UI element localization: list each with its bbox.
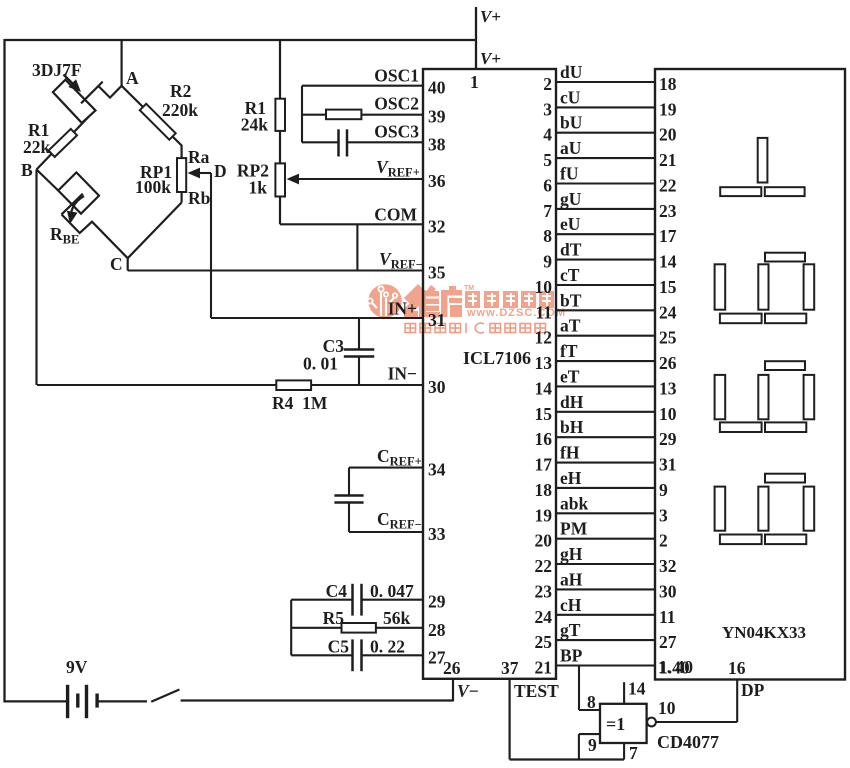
- svg-text:13: 13: [659, 378, 677, 398]
- svg-text:2: 2: [659, 531, 668, 551]
- capacitor C3 plate2: [344, 355, 375, 358]
- digit4 segment d-left: [720, 535, 762, 545]
- svg-text:cU: cU: [560, 87, 581, 107]
- wire IN+ from node D: [211, 317, 423, 319]
- wire top V+ rail: [5, 39, 477, 41]
- svg-text:5: 5: [543, 150, 552, 170]
- svg-text:11: 11: [659, 607, 676, 627]
- digit4 segment f-left: [715, 487, 726, 531]
- svg-text:0. 047: 0. 047: [370, 581, 414, 601]
- wire CREF+ down to cap: [348, 468, 350, 495]
- svg-text:1k: 1k: [249, 178, 268, 198]
- svg-text:3: 3: [543, 99, 552, 119]
- wire TEST bottom run: [510, 758, 624, 760]
- wire segment eT row: [556, 385, 655, 387]
- wire A to 3DJ7F gate: [98, 86, 121, 98]
- wire pin27 left: [291, 654, 352, 656]
- wire joining pins 29-27: [290, 600, 292, 656]
- svg-text:dU: dU: [560, 62, 583, 82]
- svg-text:17: 17: [659, 226, 677, 246]
- digit1 segment left-bottom: [720, 187, 761, 196]
- svg-text:dT: dT: [560, 240, 582, 260]
- svg-text:7: 7: [629, 743, 638, 763]
- transistor Q2 RBE arrow: [70, 196, 84, 220]
- svg-text:TM: TM: [464, 285, 474, 292]
- digit4 segment f: [758, 487, 768, 531]
- wire pin 7: [623, 743, 625, 760]
- svg-text:cT: cT: [560, 265, 580, 285]
- svg-text:31: 31: [659, 455, 677, 475]
- potentiometer RP1 body: [177, 158, 186, 192]
- wire OSC2 right: [361, 114, 423, 116]
- svg-text:10: 10: [658, 698, 676, 718]
- svg-text:21: 21: [659, 150, 677, 170]
- wire RBE to node C: [62, 214, 128, 258]
- svg-text:25: 25: [659, 328, 677, 348]
- watermark logo circle: [368, 284, 402, 318]
- svg-text:cH: cH: [560, 595, 582, 615]
- digit2 segment f: [758, 264, 768, 309]
- display U2 YN04KX33 body: [655, 69, 845, 680]
- svg-text:56k: 56k: [383, 608, 411, 628]
- svg-text:aH: aH: [560, 569, 583, 589]
- svg-text:7: 7: [543, 201, 552, 221]
- digit1 segment b: [758, 138, 768, 183]
- wire R2 to RP1: [173, 137, 182, 159]
- svg-text:B: B: [21, 160, 33, 180]
- wire segment aU row: [556, 157, 655, 159]
- svg-text:OSC3: OSC3: [374, 122, 419, 142]
- svg-text:C4: C4: [326, 581, 348, 601]
- svg-text:BP: BP: [560, 646, 583, 666]
- svg-text:10: 10: [535, 277, 553, 297]
- digit3 segment f: [758, 375, 768, 419]
- digit3 segment d: [765, 422, 806, 432]
- svg-text:dH: dH: [560, 392, 584, 412]
- wire DP vertical: [736, 680, 738, 723]
- wire pin28 left: [291, 627, 341, 629]
- svg-text:3DJ7F: 3DJ7F: [32, 60, 82, 80]
- svg-text:32: 32: [659, 556, 677, 576]
- wire segment cT row: [556, 284, 655, 286]
- wire segment fH row: [556, 462, 655, 464]
- watermark big characters 维库: [403, 284, 462, 318]
- digit2 segment f-left: [715, 264, 726, 309]
- wire segment dT row: [556, 259, 655, 261]
- battery plate short 2: [95, 694, 98, 708]
- digit2 segment d-left: [720, 314, 762, 324]
- svg-text:=1: =1: [606, 714, 625, 734]
- svg-text:9V: 9V: [66, 657, 88, 677]
- svg-text:37: 37: [501, 658, 519, 678]
- switch blade: [151, 690, 179, 702]
- potentiometer RP2 body: [275, 163, 285, 196]
- svg-text:eT: eT: [560, 366, 580, 386]
- wire pin 14: [623, 682, 625, 704]
- svg-text:IN+: IN+: [388, 299, 417, 319]
- wire OSC loop vertical: [301, 86, 303, 143]
- wire BP to pin 8: [578, 666, 580, 711]
- svg-text:20: 20: [659, 125, 677, 145]
- battery 9V plate long 1: [66, 685, 69, 718]
- wire battery to switch: [98, 700, 147, 702]
- wire TEST vertical: [509, 679, 511, 760]
- svg-text:21: 21: [535, 658, 553, 678]
- wire segment gH row: [556, 563, 655, 565]
- svg-text:25: 25: [535, 632, 553, 652]
- svg-text:17: 17: [535, 455, 553, 475]
- wire RP2 to COM: [279, 197, 281, 225]
- svg-text:D: D: [214, 161, 227, 181]
- svg-text:34: 34: [428, 460, 446, 480]
- transistor Q1 3DJ7F body: [53, 80, 96, 123]
- svg-text:38: 38: [428, 134, 446, 154]
- capacitor C4 plate1: [351, 584, 354, 616]
- wire pin 10 output: [656, 721, 737, 723]
- svg-text:abk: abk: [560, 493, 588, 513]
- wire pin27 right: [362, 654, 424, 656]
- wire segment eU row: [556, 233, 655, 235]
- wire COM: [280, 223, 423, 225]
- wire segment bU row: [556, 132, 655, 134]
- transistor Q2 RBE body: [58, 172, 99, 213]
- wire segment bT row: [556, 309, 655, 311]
- svg-text:32: 32: [428, 216, 446, 236]
- svg-text:fU: fU: [560, 164, 579, 184]
- svg-text:Rb: Rb: [188, 188, 211, 208]
- capacitor C5 plate2: [360, 639, 363, 671]
- svg-text:16: 16: [728, 658, 746, 678]
- transistor Q1 3DJ7F gate bar: [81, 82, 103, 104]
- wire pin 9 down: [578, 734, 580, 759]
- wire battery left: [5, 700, 67, 702]
- svg-text:22k: 22k: [23, 137, 51, 157]
- wire IN- left: [37, 384, 276, 386]
- wire V- vertical: [452, 679, 454, 702]
- svg-text:19: 19: [535, 505, 553, 525]
- svg-text:9: 9: [659, 480, 668, 500]
- digit3 segment a: [765, 361, 805, 370]
- svg-text:2: 2: [543, 74, 552, 94]
- transistor Q1 arrowhead: [68, 79, 81, 92]
- wire segment aT row: [556, 335, 655, 337]
- svg-text:gT: gT: [560, 620, 581, 640]
- resistor R4 body: [276, 380, 311, 390]
- wire node B down to IN-: [35, 170, 37, 386]
- wire OSC3 right: [348, 141, 424, 143]
- battery plate long 2: [85, 685, 88, 718]
- wire segment fU row: [556, 182, 655, 184]
- svg-text:R2: R2: [170, 81, 191, 101]
- wire pin28 right: [376, 627, 423, 629]
- wire node D vertical: [210, 173, 212, 318]
- digit3 segment b: [804, 375, 815, 419]
- svg-text:OSC1: OSC1: [374, 66, 419, 86]
- wire segment dH row: [556, 411, 655, 413]
- svg-text:15: 15: [659, 277, 677, 297]
- svg-text:14: 14: [659, 252, 677, 272]
- wire pin 9 into gate: [579, 733, 600, 735]
- capacitor CREF plate2: [334, 501, 363, 504]
- svg-text:22: 22: [659, 176, 677, 196]
- RP1 wiper arrow: [188, 168, 201, 179]
- svg-text:29: 29: [428, 592, 446, 612]
- wire segment abk row: [556, 512, 655, 514]
- wire V+ rail to R1 24k: [279, 40, 281, 99]
- svg-text:9: 9: [588, 735, 597, 755]
- svg-text:0. 01: 0. 01: [303, 354, 338, 374]
- svg-text:24k: 24k: [241, 115, 269, 135]
- svg-text:16: 16: [535, 429, 553, 449]
- wire segment PM row: [556, 538, 655, 540]
- svg-text:19: 19: [659, 99, 677, 119]
- svg-text:V+: V+: [480, 49, 501, 68]
- digit3 segment d-left: [720, 422, 762, 432]
- wire segment cU row: [556, 106, 655, 108]
- wire OSC2 left: [302, 114, 326, 116]
- RBE arrowhead: [67, 211, 78, 224]
- transistor Q2 RBE bar: [62, 194, 83, 215]
- wire switch to V-: [181, 699, 453, 701]
- wire node C drop: [127, 258, 129, 270]
- watermark slogan 全球最大IC采购网站: [405, 323, 546, 333]
- wire B to RBE: [37, 170, 59, 191]
- svg-text:CD4077: CD4077: [657, 732, 719, 752]
- svg-text:eH: eH: [560, 468, 582, 488]
- wire V+ drop to pin 1: [475, 7, 477, 69]
- wire RP1 down to node C: [128, 203, 182, 259]
- svg-text:11: 11: [535, 302, 552, 322]
- wire cap to CREF-: [348, 503, 350, 533]
- svg-text:9: 9: [543, 252, 552, 272]
- resistor on OSC2: [326, 110, 361, 120]
- svg-text:TEST: TEST: [514, 681, 559, 701]
- svg-text:YN04KX33: YN04KX33: [722, 623, 806, 642]
- svg-text:30: 30: [428, 377, 446, 397]
- wire CREF-: [349, 531, 423, 533]
- svg-text:OSC2: OSC2: [374, 94, 419, 114]
- svg-text:R4 1M: R4 1M: [272, 393, 328, 413]
- RP2 wiper arrow: [287, 174, 300, 185]
- svg-text:IN−: IN−: [388, 364, 417, 384]
- wire segment gU row: [556, 208, 655, 210]
- svg-text:24: 24: [659, 302, 677, 322]
- resistor R1 22k body: [49, 129, 78, 157]
- capacitor plate2: [346, 129, 349, 156]
- svg-text:30: 30: [659, 581, 677, 601]
- svg-text:PM: PM: [560, 519, 588, 539]
- svg-text:1: 1: [470, 72, 479, 92]
- svg-text:36: 36: [428, 171, 446, 191]
- wire RP1 wiper to D: [197, 172, 211, 174]
- capacitor C3 plate1: [344, 348, 375, 351]
- svg-text:3: 3: [659, 505, 668, 525]
- svg-text:gH: gH: [560, 544, 583, 564]
- wire segment fT row: [556, 360, 655, 362]
- wire segment eH row: [556, 487, 655, 489]
- wire segment bH row: [556, 436, 655, 438]
- digit2 segment a: [765, 253, 805, 262]
- wire segment gT row: [556, 639, 655, 641]
- svg-text:220k: 220k: [162, 100, 198, 120]
- svg-text:0. 22: 0. 22: [370, 637, 405, 657]
- svg-text:C5: C5: [328, 637, 350, 657]
- svg-text:100k: 100k: [135, 177, 171, 197]
- svg-text:COM: COM: [374, 205, 417, 225]
- wire left border: [3, 39, 5, 703]
- wire segment cH row: [556, 614, 655, 616]
- capacitor on OSC3 plate1: [337, 129, 340, 156]
- wire pin 8 into gate: [579, 709, 600, 711]
- digit1 segment right-bottom: [765, 187, 805, 196]
- wire IN+ to C3: [358, 318, 360, 349]
- svg-text:27: 27: [659, 632, 677, 652]
- wire CREF+: [349, 467, 423, 469]
- svg-text:V−: V−: [457, 681, 479, 701]
- digit2 segment d: [765, 314, 806, 324]
- svg-text:15: 15: [535, 404, 553, 424]
- wire A to R2: [122, 86, 143, 107]
- wire IN- right: [311, 384, 423, 386]
- svg-text:39: 39: [428, 107, 446, 127]
- svg-text:ICL7106: ICL7106: [463, 348, 531, 368]
- svg-text:fH: fH: [560, 443, 580, 463]
- wire node A drop: [120, 40, 122, 86]
- svg-text:28: 28: [428, 620, 446, 640]
- wire RP1 to C arm: [181, 192, 183, 203]
- watermark characters 电子市场网: [465, 291, 554, 308]
- gate U3 CD4077 body: [600, 704, 647, 743]
- svg-text:fT: fT: [560, 341, 578, 361]
- svg-text:bT: bT: [560, 290, 582, 310]
- svg-text:12: 12: [535, 328, 553, 348]
- svg-text:22: 22: [535, 556, 553, 576]
- wire pin29 right: [362, 599, 424, 601]
- svg-text:aU: aU: [560, 138, 582, 158]
- svg-text:8: 8: [587, 692, 596, 712]
- svg-text:1. 40: 1. 40: [658, 657, 693, 677]
- resistor R1 24k body: [275, 99, 285, 131]
- capacitor C5 plate1: [351, 639, 354, 671]
- svg-text:24: 24: [535, 607, 553, 627]
- wire pin29 left: [291, 599, 352, 601]
- wire R1 to RP2: [279, 131, 281, 164]
- digit4 segment d: [765, 535, 806, 545]
- svg-text:C: C: [110, 254, 123, 274]
- svg-text:10: 10: [659, 404, 677, 424]
- svg-text:23: 23: [659, 201, 677, 221]
- wire COM to VREF-: [356, 224, 358, 270]
- svg-text:40: 40: [428, 78, 446, 98]
- wire segment BP row: [556, 664, 655, 666]
- wire OSC1: [302, 85, 423, 87]
- svg-text:26: 26: [443, 658, 461, 678]
- svg-text:eU: eU: [560, 214, 581, 234]
- svg-text:18: 18: [535, 480, 553, 500]
- wire C3 to IN-: [358, 357, 360, 386]
- svg-text:26: 26: [659, 353, 677, 373]
- svg-text:13: 13: [535, 353, 553, 373]
- svg-text:35: 35: [428, 263, 446, 283]
- svg-text:DP: DP: [741, 680, 765, 700]
- wire R1 to node B: [37, 154, 52, 170]
- svg-text:29: 29: [659, 429, 677, 449]
- digit4 segment a: [765, 474, 805, 483]
- capacitor C4 plate2: [360, 584, 363, 616]
- wire segment dU row: [556, 81, 655, 83]
- svg-text:18: 18: [659, 74, 677, 94]
- svg-text:8: 8: [543, 226, 552, 246]
- digit2 segment b: [804, 264, 815, 309]
- transistor Q1 arrow: [64, 75, 75, 86]
- battery plate short 1: [76, 694, 79, 708]
- svg-text:A: A: [126, 68, 139, 88]
- digit3 segment f-left: [715, 375, 726, 419]
- resistor R2 220k body: [140, 104, 176, 140]
- svg-text:aT: aT: [560, 316, 581, 336]
- svg-text:4: 4: [543, 125, 552, 145]
- svg-text:23: 23: [535, 581, 553, 601]
- op-amp U1 ICL7106 body: [423, 69, 556, 679]
- svg-text:14: 14: [535, 378, 553, 398]
- svg-text:bH: bH: [560, 417, 584, 437]
- capacitor CREF plate1: [334, 494, 363, 497]
- wire VREF- from node C: [128, 269, 423, 271]
- resistor R5 body: [342, 623, 376, 633]
- svg-text:Ra: Ra: [188, 147, 210, 167]
- svg-text:31: 31: [428, 310, 446, 330]
- svg-text:gU: gU: [560, 189, 582, 209]
- svg-text:33: 33: [428, 524, 446, 544]
- svg-text:R5: R5: [323, 608, 345, 628]
- CD4077 output bubble: [647, 718, 656, 727]
- wire VREF+ to RP2 wiper: [296, 178, 423, 180]
- wire OSC3 left: [302, 141, 338, 143]
- wire segment aH row: [556, 588, 655, 590]
- svg-text:bU: bU: [560, 113, 583, 133]
- svg-text:20: 20: [535, 531, 553, 551]
- wire 3DJ7F to R1 22k: [74, 117, 89, 132]
- svg-text:V+: V+: [480, 7, 501, 26]
- svg-text:6: 6: [543, 176, 552, 196]
- digit4 segment b: [804, 487, 815, 531]
- svg-text:14: 14: [628, 679, 646, 699]
